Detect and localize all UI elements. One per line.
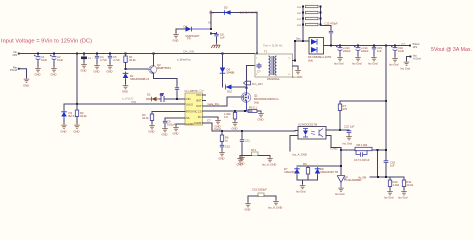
wire UVLO sense — [77, 54, 185, 105]
resistor R6 comp — [220, 131, 229, 143]
port J1 Vin — [12, 50, 19, 57]
diode D10 clamp — [226, 85, 233, 94]
wire feedback vertical — [385, 46, 387, 178]
resistor R5 sense — [248, 106, 261, 113]
capacitor C17 fb comp — [354, 150, 370, 162]
svg-text:GND: GND — [94, 70, 100, 74]
node comp b — [241, 130, 243, 132]
svg-text:GND: GND — [122, 90, 128, 94]
svg-text:Iso Gnd: Iso Gnd — [352, 62, 362, 66]
svg-text:1.00k: 1.00k — [393, 183, 400, 187]
svg-text:VL: VL — [208, 21, 212, 25]
wire fb divider — [370, 176, 404, 178]
svg-text:Iso Gnd: Iso Gnd — [296, 190, 306, 194]
wire Q2 emitter to VCC cap — [154, 73, 178, 86]
svg-text:GND: GND — [219, 157, 225, 161]
svg-text:10uF: 10uF — [57, 58, 63, 62]
svg-text:Gate_Drv: Gate_Drv — [208, 102, 220, 106]
svg-text:out: out — [401, 42, 405, 46]
node bias divider — [125, 68, 127, 70]
svg-text:Tsw = 1100 Hz: Tsw = 1100 Hz — [263, 44, 283, 48]
resistor R3 RT — [142, 112, 185, 125]
ground L1 — [81, 63, 87, 73]
resistor R10 div low1 — [388, 177, 399, 190]
svg-text:4.7uF: 4.7uF — [100, 58, 107, 62]
svg-text:C22 1uF: C22 1uF — [344, 125, 355, 129]
svg-text:T1: T1 — [264, 50, 268, 54]
capacitor C5 4.7uF — [108, 55, 120, 65]
svg-text:A Gnd: A Gnd — [413, 56, 421, 60]
svg-text:CMHD4448 TR: CMHD4448 TR — [240, 11, 258, 15]
svg-text:220uF: 220uF — [343, 49, 351, 53]
wire VIN rail — [19, 53, 256, 55]
wire opto emitter to iso gnd label — [290, 136, 295, 152]
wire COMP — [206, 123, 296, 131]
svg-text:D6 CMMSH1-40TR: D6 CMMSH1-40TR — [308, 55, 331, 59]
node aux — [210, 28, 212, 30]
svg-text:Input Voltage = 9Vin to 125Vin: Input Voltage = 9Vin to 125Vin (DC) — [1, 39, 92, 45]
svg-text:s_BiasVcc: s_BiasVcc — [177, 58, 192, 62]
svg-text:CS: CS — [198, 110, 202, 114]
svg-text:1uF: 1uF — [377, 49, 382, 53]
wire CS — [206, 110, 253, 112]
svg-text:GND: GND — [107, 70, 113, 74]
node CS sense — [244, 110, 246, 112]
svg-text:Iso Gnd: Iso Gnd — [334, 62, 344, 66]
capacitor C9 SS — [163, 118, 185, 127]
svg-text:VIN: VIN — [131, 100, 136, 104]
wire aux top — [211, 12, 257, 14]
resistor R13 — [297, 5, 318, 9]
svg-text:GND: GND — [81, 69, 87, 73]
transformer T1 — [255, 50, 293, 82]
wire gate drive — [206, 97, 243, 106]
svg-text:RC: RC — [198, 115, 202, 119]
diode D5 CMHD4448 — [209, 6, 258, 15]
ground net tie right — [262, 156, 276, 167]
capacitor C7 inline vcc — [159, 93, 166, 103]
node clamp rail — [222, 53, 224, 55]
wire secondary bottom to ground — [293, 66, 299, 69]
ground C15 — [368, 56, 378, 66]
ground net tie left — [237, 156, 243, 167]
opto phototransistor — [319, 129, 323, 138]
core — [272, 56, 274, 75]
rectifier D6 dual — [308, 38, 331, 63]
svg-text:Drn_1Pri: Drn_1Pri — [252, 82, 263, 86]
ground C2 — [51, 67, 57, 77]
svg-text:C12 470pF: C12 470pF — [325, 22, 339, 26]
wire led anode row — [326, 129, 349, 131]
svg-text:5948B: 5948B — [227, 71, 235, 75]
capacitor C15 out — [372, 46, 383, 57]
IC U1 LM5574 — [182, 90, 206, 126]
svg-text:C?: C? — [207, 119, 211, 123]
node UVLO — [76, 103, 78, 105]
junction dots on VIN rail — [37, 53, 258, 55]
svg-text:MMBT5551: MMBT5551 — [157, 66, 171, 70]
svg-text:CH_VIN: CH_VIN — [183, 50, 194, 54]
svg-text:Iso Gnd: Iso Gnd — [401, 67, 411, 71]
svg-text:10uF: 10uF — [398, 49, 404, 53]
svg-text:UVLO: UVLO — [186, 103, 193, 107]
svg-text:49.9k: 49.9k — [80, 114, 87, 118]
svg-text:Iso_A_GND: Iso_A_GND — [262, 163, 276, 167]
zener D1 SMAZ — [123, 72, 150, 85]
ground TL431 — [335, 187, 345, 197]
ground zeners — [296, 180, 306, 194]
svg-text:475: 475 — [343, 107, 348, 111]
ground R4 — [232, 121, 238, 131]
ground R5 — [258, 112, 264, 122]
zener D9 clamp TVS — [220, 68, 235, 75]
ground C1 — [35, 67, 41, 77]
wire aux — [176, 29, 185, 33]
port J2 Return — [10, 65, 20, 72]
svg-text:GND: GND — [237, 163, 243, 167]
svg-text:GND: GND — [149, 130, 155, 134]
svg-text:(Alt): (Alt) — [254, 101, 259, 105]
ground D3 — [61, 124, 67, 134]
svg-text:GND: GND — [61, 130, 67, 134]
svg-text:SMAZ5940B-13: SMAZ5940B-13 — [130, 77, 150, 81]
snubber cap inside — [257, 63, 262, 74]
svg-text:R5 0.1: R5 0.1 — [249, 106, 257, 110]
svg-text:Iso Gnd: Iso Gnd — [398, 196, 408, 200]
svg-text:GND: GND — [162, 133, 168, 137]
svg-text:GND: GND — [74, 130, 80, 134]
svg-text:U2 MOCD217M: U2 MOCD217M — [298, 123, 318, 127]
svg-text:C10: C10 — [225, 145, 230, 149]
svg-text:GND: GND — [245, 208, 251, 212]
svg-text:C19 2200pF: C19 2200pF — [252, 188, 267, 192]
svg-text:GND: GND — [173, 39, 179, 43]
ground ycap right — [268, 200, 282, 210]
wire to VCC pin — [166, 98, 185, 100]
capacitor C8 aux — [210, 33, 212, 35]
node secondary corner — [294, 40, 296, 42]
ground C9 — [162, 127, 168, 137]
svg-text:R9: R9 — [303, 162, 307, 166]
svg-text:Iso_A_GND: Iso_A_GND — [268, 206, 282, 210]
secondary winding — [275, 56, 277, 75]
wire Q2 collector to rail — [153, 54, 155, 67]
node snub tap — [302, 40, 304, 42]
svg-text:220uF: 220uF — [361, 49, 369, 53]
wire clamp to drain — [232, 86, 247, 88]
capacitor C14 out — [354, 46, 369, 57]
wire return to ground — [19, 69, 27, 78]
svg-text:0.01uF: 0.01uF — [167, 123, 176, 127]
ground ycap left — [245, 202, 251, 212]
capacitor C1 100uF — [34, 55, 47, 68]
svg-text:D10: D10 — [227, 90, 232, 94]
svg-text:PGnd: PGnd — [10, 68, 17, 72]
svg-text:VIN: VIN — [186, 97, 190, 101]
svg-text:1P2: 1P2 — [12, 53, 17, 57]
resistor R1 49.9k — [124, 54, 136, 70]
wire zener bottom rail — [297, 179, 318, 181]
TL431 U3 — [337, 175, 361, 187]
wire aux up — [210, 11, 212, 29]
node rc vout — [385, 149, 387, 151]
svg-text:GND: GND — [232, 127, 238, 131]
svg-text:D2: D2 — [147, 93, 151, 97]
wire secondary top — [293, 41, 310, 61]
wire TL431 cathode — [340, 150, 342, 175]
ground C13 — [334, 56, 344, 66]
svg-text:BST: BST — [196, 99, 201, 103]
opto LED — [303, 129, 308, 138]
primary winding — [269, 56, 271, 75]
svg-text:10.0k: 10.0k — [407, 183, 414, 187]
resistor R19 — [297, 23, 318, 27]
MOSFET Q1 — [241, 88, 278, 111]
svg-text:Bias: Bias — [209, 11, 215, 15]
svg-text:C7: C7 — [160, 93, 164, 97]
resistor R11 div low2 — [402, 177, 413, 190]
svg-text:C11: C11 — [245, 139, 250, 143]
svg-text:5Vout @ 3A Max.: 5Vout @ 3A Max. — [431, 47, 472, 53]
svg-text:GND: GND — [35, 73, 41, 77]
zener D7 — [284, 167, 300, 180]
ground secondary — [292, 69, 302, 79]
capacitor C11 comp hf — [240, 131, 250, 156]
svg-text:VCC: VCC — [196, 93, 202, 97]
svg-text:Iso GND: Iso GND — [292, 75, 302, 79]
svg-text:Iso Gnd: Iso Gnd — [384, 196, 394, 200]
capacitor C3 bead — [81, 54, 91, 64]
zener D8 — [315, 167, 338, 180]
svg-text:49.9k: 49.9k — [129, 58, 136, 62]
node div a — [377, 176, 379, 178]
svg-text:R8 1.00k: R8 1.00k — [357, 143, 368, 147]
svg-text:COMP: COMP — [194, 121, 202, 125]
ground R10 — [384, 190, 394, 200]
ground comp b — [239, 156, 245, 166]
ground R11 — [398, 190, 408, 200]
wire drain to transformer — [247, 66, 256, 89]
wire clamp vertical — [222, 54, 224, 88]
ground C5 — [107, 64, 113, 74]
ground D1 — [122, 84, 128, 94]
wire RC pin — [206, 117, 219, 119]
svg-text:GND: GND — [23, 84, 29, 88]
wire fb tap — [340, 101, 386, 104]
wire iso port to ground — [407, 57, 410, 61]
ground aux rectifier — [173, 33, 179, 43]
svg-text:D4: D4 — [184, 25, 188, 29]
capacitor C19 ycap — [248, 188, 276, 203]
node comp rc — [340, 149, 342, 151]
node comp a — [221, 130, 223, 132]
node div b — [385, 176, 387, 178]
svg-text:Iso Gnd: Iso Gnd — [368, 62, 378, 66]
resistor R15 — [297, 11, 318, 15]
capacitor C4 4.7uF — [95, 55, 107, 65]
svg-text:NT1: NT1 — [251, 148, 257, 152]
ground C16 — [389, 57, 399, 67]
svg-text:C?: C? — [257, 70, 261, 74]
wire aux to rail — [256, 13, 258, 54]
capacitor C2 100uF — [50, 55, 63, 68]
transistor Q2 bias NPN — [149, 63, 172, 74]
capacitor C12 snubber — [321, 22, 339, 46]
wire base — [126, 68, 148, 70]
svg-text:s_Clp: s_Clp — [196, 89, 204, 93]
svg-text:L1: L1 — [88, 56, 91, 60]
net tie NT1 — [240, 148, 270, 156]
svg-text:GND: GND — [173, 132, 179, 136]
svg-text:SS: SS — [186, 116, 190, 120]
svg-text:Iso_A_GND: Iso_A_GND — [293, 153, 307, 157]
ground input return — [23, 78, 29, 88]
node secondary — [294, 60, 296, 62]
svg-text:4.7uF: 4.7uF — [113, 58, 120, 62]
svg-text:Vo_FB: Vo_FB — [358, 176, 366, 180]
svg-text:TL431: TL431 — [330, 147, 338, 151]
svg-text:1uF: 1uF — [390, 164, 395, 168]
svg-text:AGND: AGND — [186, 122, 194, 126]
svg-text:10uF: 10uF — [41, 58, 47, 62]
port IsoGND stub — [410, 53, 421, 60]
node led — [339, 129, 341, 131]
svg-text:Comp: Comp — [214, 127, 222, 131]
svg-text:D5: D5 — [224, 6, 228, 10]
node zener rail — [340, 165, 342, 167]
svg-text:34.0k: 34.0k — [142, 116, 149, 120]
node VCC — [176, 98, 178, 100]
capacitor C6 inline emitter — [175, 86, 179, 99]
ground R2 — [74, 124, 80, 134]
resistor R8 fb comp — [355, 143, 372, 151]
ground opto bypass — [343, 135, 353, 146]
ground AGND pin — [173, 124, 186, 136]
diode D2 bias feed — [146, 93, 159, 102]
ground port — [401, 61, 411, 71]
svg-text:(Alt): (Alt) — [308, 59, 313, 63]
svg-text:1uF: 1uF — [220, 36, 225, 40]
svg-text:RT/SYNC: RT/SYNC — [186, 110, 197, 114]
svg-text:TR: TR — [187, 37, 191, 41]
svg-text:Iso Gnd: Iso Gnd — [389, 63, 399, 67]
capacitor C18 ff — [384, 161, 396, 168]
wire opto led cathode — [326, 136, 341, 151]
junction dots output rail — [330, 45, 396, 47]
resistor R9 — [303, 162, 310, 180]
ground RC — [215, 119, 221, 129]
svg-text:GND: GND — [258, 118, 264, 122]
capacitor C16 out — [391, 46, 404, 58]
wire output rail — [324, 45, 411, 47]
svg-text:GND: GND — [51, 73, 57, 77]
earth ground C8 — [211, 43, 220, 48]
ground R3 — [149, 124, 155, 134]
capacitor C13 out — [336, 46, 351, 57]
ground C4 — [94, 64, 100, 74]
port Drn — [244, 81, 264, 86]
capacitor C10 comp — [220, 142, 231, 152]
svg-text:OUT: OUT — [196, 104, 202, 108]
capacitor C20 opto bypass — [347, 130, 352, 135]
node rc right — [377, 149, 379, 151]
svg-text:1%: 1% — [224, 115, 228, 119]
svg-text:Iso Gnd: Iso Gnd — [335, 192, 345, 196]
svg-text:CMHZ4690: CMHZ4690 — [284, 170, 298, 174]
svg-text:C17 0.047uF: C17 0.047uF — [354, 158, 370, 162]
wire comp rc — [341, 150, 386, 177]
wire uvlo zener branch — [64, 103, 77, 105]
node drain — [246, 87, 248, 89]
svg-text:Sec: Sec — [296, 37, 301, 41]
wire zener top rail — [297, 165, 341, 167]
ground C14 — [352, 56, 362, 66]
svg-text:PA0264NL: PA0264NL — [267, 77, 280, 81]
svg-text:BSC0660N10NS3 G: BSC0660N10NS3 G — [254, 97, 279, 101]
optocoupler U2 — [295, 123, 329, 140]
svg-text:Iso Gnd: Iso Gnd — [343, 142, 353, 146]
svg-text:Q1: Q1 — [254, 94, 258, 98]
resistor R17 — [297, 17, 318, 21]
opto pins — [295, 130, 329, 136]
node CS filter — [234, 110, 236, 112]
svg-text:s_UVLO: s_UVLO — [122, 97, 134, 101]
zener D3 — [61, 104, 77, 124]
svg-text:CMHZ4690 TR: CMHZ4690 TR — [320, 170, 338, 174]
diode D4 MURS120 — [184, 25, 212, 41]
resistor R7 led — [338, 104, 347, 130]
snubber ladder R13 R15 R17 R19 — [297, 5, 322, 41]
resistor R2 uvlo low — [75, 104, 87, 124]
port 5Vout — [401, 42, 420, 49]
resistor R4 CS filter — [224, 111, 237, 121]
ground comp a — [219, 151, 225, 161]
svg-text:1P1: 1P1 — [413, 45, 418, 49]
node fb tap — [385, 100, 387, 102]
